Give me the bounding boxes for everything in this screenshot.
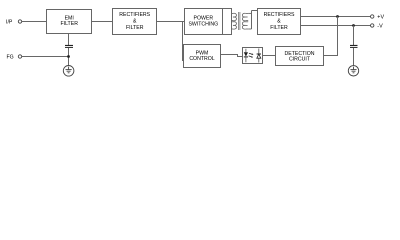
block EMI FILTER: [47, 10, 92, 34]
wire -V rail: [301, 25, 371, 27]
LED inside photocoupler: [245, 49, 247, 52]
wire power switching to transformer primary bottom: [223, 29, 232, 35]
capacitor CY1: [65, 46, 73, 48]
svg-text:+V: +V: [377, 14, 384, 20]
junction node on -V rail: [352, 24, 355, 27]
wire secondary bracket: [251, 11, 253, 30]
wire secondary stubs: [248, 12, 251, 14]
terminal I/P: [18, 20, 21, 23]
svg-text:&: &: [277, 19, 281, 25]
protective earth ground (left): [63, 66, 74, 77]
svg-text:FILTER: FILTER: [270, 25, 288, 31]
svg-text:-V: -V: [377, 23, 383, 29]
wire EMI filter to rectifiers 1: [92, 21, 113, 23]
svg-text:FILTER: FILTER: [126, 25, 144, 31]
wire capacitor to FG junction: [68, 48, 70, 66]
svg-text:FG: FG: [7, 54, 14, 60]
protective earth ground (right): [348, 66, 358, 76]
light arrows: [249, 53, 253, 54]
wire capacitor to earth (right): [353, 48, 355, 66]
wire -V rail down to Y-capacitor: [353, 26, 355, 46]
terminal +V: [371, 15, 374, 18]
svg-text:I/P: I/P: [6, 19, 13, 25]
transformer T1 secondary winding: [242, 13, 248, 29]
svg-text:FILTER: FILTER: [60, 21, 78, 27]
wire detection feedback from +V rail: [324, 17, 338, 56]
wire FG rail: [22, 56, 69, 58]
photocoupler U1: [243, 48, 263, 64]
terminal FG: [18, 55, 21, 58]
svg-text:RECTIFIERS: RECTIFIERS: [119, 12, 150, 18]
wire EMI filter down to Y-capacitor: [68, 34, 70, 46]
wire down to PWM control: [182, 22, 184, 62]
block RECTIFIERS & FILTER (output): [258, 9, 301, 35]
svg-text:CIRCUIT: CIRCUIT: [289, 57, 311, 63]
wire photocoupler to detection circuit: [263, 55, 276, 57]
photodiode inside photocoupler: [258, 49, 260, 54]
capacitor CY2: [350, 46, 358, 48]
wire I/P to EMI filter: [22, 21, 47, 23]
svg-text:&: &: [133, 19, 137, 25]
block POWER SWITCHING: [185, 9, 223, 35]
transformer T1 primary winding: [232, 13, 237, 29]
wire power switching to transformer primary top: [223, 9, 232, 14]
block PWM CONTROL: [184, 45, 221, 68]
block RECTIFIERS & FILTER (input): [113, 9, 157, 35]
transformer T1 core: [238, 12, 240, 30]
svg-text:RECTIFIERS: RECTIFIERS: [264, 12, 295, 18]
block DETECTION CIRCUIT: [276, 47, 324, 66]
wire rectifiers 1 to power switching: [157, 21, 185, 23]
wire +V rail: [301, 16, 371, 18]
junction node FG: [67, 55, 70, 58]
junction node on +V rail: [336, 15, 339, 18]
wire primary bracket: [231, 13, 233, 29]
svg-text:SWITCHING: SWITCHING: [188, 21, 218, 27]
wire PWM control to photocoupler: [221, 55, 243, 57]
terminal -V: [371, 24, 374, 27]
svg-text:CONTROL: CONTROL: [189, 56, 214, 62]
wire transformer to rectifiers 2 top: [252, 10, 258, 12]
